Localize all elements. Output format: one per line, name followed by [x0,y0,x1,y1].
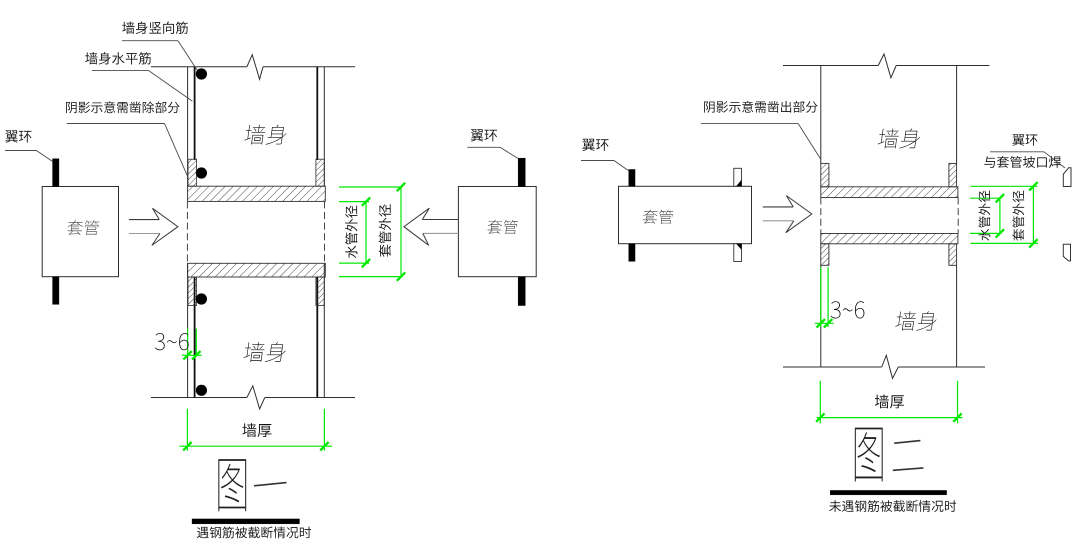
fig2 label 翼环/与套管坡口焊 with leader [984,134,1065,168]
fig1 label 阴影示意需凿除部分 with leader [66,101,188,178]
fig2 wall text 墙身 upper [877,128,921,148]
fig1 title 图一 [218,459,286,511]
fig2 wall right outer face [956,66,958,368]
fig2 caption underline bar [830,490,946,495]
fig2 dimension extension lines (green) [970,186,1038,243]
fig1 wall thickness dimension 墙厚 [179,409,332,451]
fig2 sleeve hole dashed edges [821,198,958,234]
fig1 hatched chisel strip lower-left [188,277,197,305]
fig1 wall text 墙身 upper [244,125,288,145]
fig1 left sleeve wing ring bars [53,159,59,305]
fig2 insertion arrow pointing right [763,196,812,233]
fig1 wall bottom edge line with break symbol [151,386,355,409]
fig1 wall right outer face [323,67,325,398]
fig2 hatched band upper [821,187,958,198]
fig2 dimension 3~6 [815,267,865,328]
fig1 vertical rebar dot 2 [196,167,207,178]
fig2 sleeve wing ring outline bottom-right with weld wedge [734,244,742,262]
fig2 wing ring weld shape top [1063,168,1071,187]
fig2 label 翼环 left with leader [581,139,629,171]
fig1 dimension line 水管外径 [345,197,370,267]
fig1 right sleeve text 套管 [487,220,518,234]
fig1 right sleeve box [458,187,536,277]
fig1 wall top edge line with break symbol [151,55,355,80]
fig1 hatched chisel strip upper-right [316,159,324,186]
fig2 wing ring weld shape bottom [1063,244,1070,261]
fig1 label 翼环 left with leader [5,130,53,161]
fig2 title 图二 [855,428,924,482]
fig2 sleeve text 套管 [642,210,673,224]
fig1 wall horizontal rebar line right (dark) [316,67,318,398]
fig1 caption 遇钢筋被截断情况时 [197,527,311,539]
fig1 dimension 3~6 [155,329,202,360]
fig1 insertion arrow pointing right [129,208,178,245]
fig1 right sleeve wing ring bars [518,158,525,305]
fig2 hatched notch upper-right [949,163,957,186]
fig2 sleeve wing ring outline top-right with weld wedge [734,168,742,186]
fig2 hatched band lower [821,234,958,244]
fig2 caption 未遇钢筋被截断情况时 [829,500,956,512]
fig1 insertion arrow pointing left [404,208,459,245]
fig2 wall text 墙身 lower [895,311,938,331]
fig2 sleeve box [619,186,752,243]
fig2 wall top edge line with break symbol [783,54,990,78]
fig1 wall text 墙身 lower [243,342,287,362]
fig2 hatched notch lower-left [821,244,829,265]
fig2 dimension line 水管外径 [979,191,1005,241]
fig2 wall bottom edge line with break symbol [783,355,985,378]
fig2 hatched notch upper-left [821,163,829,186]
fig1 vertical rebar dot 4 [196,385,207,396]
fig1 hatched chisel strip lower-right [316,277,324,305]
fig1 hatched chisel strip upper-left [188,159,197,186]
fig1 left sleeve box [42,187,118,277]
fig1 label 翼环 right with leader [467,129,518,158]
fig2 hatched notch lower-right [949,244,957,265]
fig1 wall left outer face [187,67,189,398]
fig1 caption underline bar [192,519,300,524]
fig1 dimension extension lines (green) [339,187,403,277]
fig1 sleeve hole dashed edges [187,201,324,263]
fig1 label 墙身水平筋 with leader [85,52,192,101]
fig1 vertical rebar dot 1 [196,68,207,79]
fig1 vertical rebar dot 3 [196,293,207,304]
fig1 label 墙身竖向筋 with leader [122,22,197,71]
fig1 wall horizontal rebar line left (dark) [194,67,196,398]
fig1 left sleeve text 套管 [67,220,100,235]
fig2 wall left outer face [820,66,822,368]
fig1 hatched band lower [188,263,326,277]
fig2 dimension line 套管外径 [1012,182,1037,248]
fig1 dimension line 套管外径 [379,183,405,281]
fig2 label 阴影示意需凿出部分 with leader [701,101,821,160]
fig2 wall thickness dimension 墙厚 [816,381,962,424]
fig2 sleeve wing ring bars (left, welded) [629,170,635,262]
fig1 hatched band upper [188,186,326,201]
